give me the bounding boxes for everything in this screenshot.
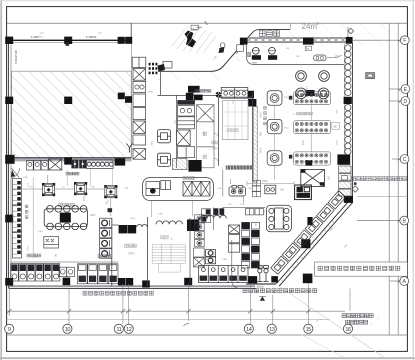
small dark mark bbox=[108, 208, 113, 212]
burner ring row bbox=[87, 160, 113, 169]
east exterior wall bbox=[351, 43, 353, 199]
east seating rail bbox=[343, 44, 345, 155]
riser 3 bbox=[230, 179, 232, 184]
vertical label char bbox=[264, 117, 267, 120]
stair flight rails bbox=[152, 244, 185, 263]
service counter bottom bbox=[198, 266, 248, 283]
small label box bbox=[332, 122, 340, 129]
laundry mid pair bbox=[59, 267, 74, 276]
small box bbox=[305, 46, 311, 50]
hood unit 3 bbox=[105, 186, 117, 198]
top exterior wall bbox=[7, 39, 131, 41]
laundry counter line bbox=[11, 261, 118, 263]
tick below column bbox=[66, 43, 70, 46]
grid line F bbox=[352, 39, 399, 41]
grid extension line bbox=[349, 289, 351, 312]
stair west wall bbox=[147, 217, 149, 286]
top wall inner line bbox=[7, 41, 131, 43]
grid bubble F bbox=[400, 36, 409, 45]
text sim room 2 bbox=[98, 255, 112, 258]
grid extension line bbox=[122, 284, 124, 324]
entrance mark bbox=[185, 31, 197, 48]
dark cook units bbox=[214, 208, 225, 215]
text electric shaft bbox=[203, 155, 207, 159]
text vent char bbox=[25, 205, 28, 208]
insulation wave right bbox=[201, 215, 227, 218]
rounded wall bbox=[232, 240, 240, 288]
svg-text:F: F bbox=[403, 38, 406, 44]
title band line bbox=[7, 22, 408, 24]
lounge table bbox=[266, 205, 291, 232]
partition line bbox=[32, 178, 34, 259]
hood unit 2 bbox=[75, 183, 87, 195]
structural columns bbox=[5, 37, 353, 288]
corridor dark block bbox=[188, 160, 201, 172]
svg-text:2350: 2350 bbox=[148, 92, 154, 94]
diamond marker bbox=[352, 186, 358, 192]
terrace faint edge bbox=[278, 286, 385, 359]
stick stool bbox=[257, 266, 262, 282]
square booth table 2 bbox=[267, 119, 282, 133]
svg-text:240: 240 bbox=[280, 189, 285, 192]
svg-text:F-J8643: F-J8643 bbox=[86, 35, 97, 39]
grid bubble 11 bbox=[114, 324, 123, 333]
grid bubble D bbox=[401, 97, 410, 106]
island unit right bbox=[183, 181, 210, 196]
glass wall bench chain bbox=[271, 191, 346, 275]
bottom margin line bbox=[7, 334, 408, 336]
elevator room walls bbox=[219, 92, 253, 181]
tea station bbox=[314, 55, 326, 61]
svg-text:240: 240 bbox=[335, 55, 340, 58]
svg-text:D: D bbox=[404, 99, 408, 105]
island unit left bbox=[146, 182, 160, 196]
entrance frame bbox=[191, 25, 199, 29]
range unit bbox=[229, 186, 245, 196]
grid bubble A bbox=[400, 277, 409, 286]
vertical label char bbox=[264, 122, 267, 125]
text steel platform note bbox=[83, 291, 153, 295]
door post bbox=[220, 43, 225, 48]
svg-text:2850: 2850 bbox=[212, 251, 214, 257]
curtain wall note box bbox=[315, 262, 408, 276]
vestibule fixture bbox=[163, 61, 172, 68]
svg-text:9: 9 bbox=[8, 327, 11, 333]
svg-text:11: 11 bbox=[116, 327, 121, 333]
elevator threshold band bbox=[226, 165, 253, 169]
svg-text:1750: 1750 bbox=[305, 86, 307, 92]
hood unit 1 bbox=[43, 184, 55, 196]
svg-text:1700: 1700 bbox=[284, 128, 290, 130]
svg-text:12: 12 bbox=[126, 327, 132, 333]
svg-text:B: B bbox=[402, 218, 406, 224]
svg-text:15m: 15m bbox=[128, 252, 135, 256]
svg-text:10: 10 bbox=[65, 327, 71, 333]
control box bbox=[44, 236, 59, 248]
cook line dark stack 2 bbox=[251, 222, 259, 268]
svg-text::: : bbox=[371, 321, 372, 326]
terrace faint edge 2 bbox=[300, 334, 345, 358]
svg-text:1750: 1750 bbox=[259, 112, 262, 118]
floor drain unit bbox=[157, 153, 170, 166]
svg-text:1240: 1240 bbox=[130, 218, 136, 220]
kitchen north wall bbox=[8, 157, 131, 159]
right margin line 1 bbox=[388, 23, 390, 335]
svg-text:98: 98 bbox=[333, 124, 337, 128]
diagonal glass curtain wall bbox=[276, 200, 352, 287]
svg-text:2M: 2M bbox=[105, 201, 108, 204]
gas line mid bbox=[54, 188, 74, 190]
ring units bbox=[206, 250, 216, 264]
banquet table 1 bbox=[294, 92, 331, 105]
dot grid bbox=[149, 63, 158, 74]
steam cabinet column bbox=[100, 218, 112, 258]
svg-text:E: E bbox=[404, 87, 408, 93]
text elevator bbox=[227, 129, 238, 132]
grid bubble 10 bbox=[63, 324, 72, 333]
svg-text:1700: 1700 bbox=[26, 246, 28, 252]
dining inner wall bbox=[246, 45, 344, 65]
svg-text:1850: 1850 bbox=[23, 177, 29, 179]
laundry bank left bbox=[11, 264, 60, 281]
svg-text:3: 3 bbox=[171, 237, 173, 241]
round table 3 bbox=[296, 88, 307, 99]
corridor wall stub bbox=[222, 170, 224, 197]
table link a bbox=[310, 105, 312, 120]
table mark 2 bbox=[306, 160, 313, 165]
east bench chairs lower bbox=[345, 105, 351, 155]
serving counter base bbox=[247, 38, 352, 43]
grid bubble E bbox=[401, 85, 410, 94]
east bench chairs bbox=[345, 45, 351, 96]
svg-text:2450: 2450 bbox=[254, 222, 256, 228]
dimension line 2 bbox=[7, 319, 330, 321]
table link line bbox=[274, 134, 276, 151]
svg-text:2540: 2540 bbox=[296, 241, 302, 244]
text area note 2 bbox=[346, 320, 368, 324]
grid extension line bbox=[188, 284, 190, 321]
wash station 1 bbox=[252, 47, 261, 59]
back kitchen walls bbox=[213, 207, 265, 288]
svg-text:1485: 1485 bbox=[204, 259, 210, 261]
office west wall bbox=[111, 218, 113, 286]
svg-text:3M-JK584(: 3M-JK584( bbox=[14, 50, 18, 64]
svg-text:8888: 8888 bbox=[252, 62, 258, 64]
square booth table 1 bbox=[267, 91, 282, 105]
level marker bbox=[260, 296, 265, 300]
east service boxes bbox=[339, 166, 352, 196]
table link b bbox=[310, 134, 312, 152]
round table 1 bbox=[296, 71, 307, 82]
svg-text:24m: 24m bbox=[302, 22, 318, 31]
shaft side fixtures bbox=[201, 209, 210, 223]
riser line 1 bbox=[47, 175, 49, 184]
stair east wall bbox=[189, 218, 191, 286]
vertical label char bbox=[264, 112, 267, 115]
small fixture bbox=[265, 185, 276, 194]
text counter label bbox=[195, 89, 211, 92]
grid extension line bbox=[8, 285, 10, 316]
counter return bbox=[236, 44, 243, 54]
dining wall stub bbox=[289, 23, 291, 29]
round table 4 bbox=[318, 88, 329, 99]
leader bbox=[327, 57, 337, 59]
gas line left bbox=[12, 188, 43, 190]
equipment contact blocks bbox=[17, 181, 21, 254]
svg-text:1200: 1200 bbox=[38, 231, 44, 233]
svg-text:A: A bbox=[402, 279, 406, 285]
vestibule wall bbox=[160, 70, 162, 95]
banquet table 2 bbox=[294, 121, 331, 134]
grid line D bbox=[389, 100, 400, 102]
shaft room column bbox=[197, 105, 214, 168]
grid extension line bbox=[68, 289, 70, 325]
counter block bbox=[306, 90, 315, 96]
hatched void area bbox=[12, 71, 132, 158]
dumbwaiter bbox=[49, 159, 62, 170]
stair landing bbox=[158, 263, 180, 272]
svg-text:14: 14 bbox=[246, 327, 252, 333]
svg-text:F-J807*—: F-J807*— bbox=[31, 35, 44, 39]
glass wall ticks bbox=[280, 221, 334, 282]
text stair3 bbox=[161, 236, 169, 239]
dining zone floor hatch bbox=[244, 23, 389, 46]
laundry bank right bbox=[77, 264, 118, 284]
grid extension line bbox=[249, 284, 251, 325]
sink row bbox=[26, 161, 48, 170]
right margin line 2 bbox=[397, 23, 399, 335]
svg-text:1750: 1750 bbox=[335, 140, 337, 146]
svg-text::: : bbox=[378, 315, 379, 320]
grid line A bbox=[390, 280, 400, 282]
table edge tick 2 bbox=[289, 155, 292, 159]
flower mark bbox=[216, 92, 222, 98]
left exterior wall outer bbox=[7, 40, 9, 288]
prep table corners bbox=[301, 169, 325, 185]
bottom exterior wall bbox=[8, 287, 256, 289]
corridor west line bbox=[130, 40, 132, 158]
elevator shaft bbox=[222, 101, 248, 140]
scan edge left bbox=[0, 0, 2, 360]
entrance hatch bbox=[172, 26, 216, 53]
prep table X bbox=[301, 169, 325, 186]
svg-text:950: 950 bbox=[259, 132, 262, 137]
grid line C bbox=[392, 158, 400, 160]
island unit mid bbox=[161, 181, 171, 190]
staff table center bbox=[60, 213, 71, 223]
grid extension line bbox=[127, 284, 129, 324]
grid extension line bbox=[307, 283, 309, 324]
dimension line 1 bbox=[7, 310, 345, 312]
grid bubble C bbox=[400, 155, 409, 164]
text vent char bbox=[25, 216, 28, 219]
dim tick bbox=[205, 21, 207, 25]
scan edge bottom bbox=[0, 357, 415, 359]
left exterior wall inner bbox=[10, 45, 12, 286]
svg-text:2340: 2340 bbox=[262, 180, 268, 183]
cook line white boxes bbox=[229, 225, 240, 252]
stair treads bbox=[152, 244, 185, 263]
svg-text:15: 15 bbox=[306, 327, 312, 333]
svg-text:20m: 20m bbox=[212, 147, 219, 151]
tap box bbox=[248, 52, 251, 56]
text vent char bbox=[25, 210, 28, 213]
crosshatch box bbox=[173, 159, 187, 170]
text office bbox=[125, 244, 137, 247]
grid bubble 9 bbox=[5, 324, 14, 333]
svg-text:240: 240 bbox=[327, 176, 330, 181]
banquet table 3 bbox=[294, 152, 331, 165]
scan edge right bbox=[412, 0, 414, 360]
arc tick bbox=[184, 324, 190, 326]
text 就餐区 bbox=[260, 31, 280, 37]
insulation wave stair top bbox=[156, 221, 182, 224]
svg-text:2400: 2400 bbox=[90, 214, 96, 217]
gas line right bbox=[87, 188, 104, 190]
stick stool bbox=[263, 266, 268, 282]
bottom wall poche bbox=[8, 285, 255, 287]
staff table bbox=[44, 206, 87, 230]
insulation wave small bbox=[137, 224, 147, 227]
text sim room 1 bbox=[27, 254, 41, 257]
island connector 2 bbox=[192, 200, 194, 216]
text mid kitchen bbox=[66, 172, 79, 175]
svg-text:1700: 1700 bbox=[284, 97, 290, 99]
refrigerator bank bbox=[132, 57, 146, 159]
table link line bbox=[274, 105, 276, 119]
grid extension line bbox=[272, 295, 274, 324]
text fire rescue top bbox=[352, 177, 407, 181]
svg-text:1485: 1485 bbox=[222, 259, 228, 261]
dim line bbox=[247, 182, 294, 184]
grid bubble 16 bbox=[343, 324, 352, 333]
wall fixture bbox=[366, 73, 375, 79]
table link line bbox=[274, 165, 276, 180]
bench line bbox=[246, 283, 276, 285]
grid bubble 13 bbox=[267, 324, 276, 333]
strip lower boxes bbox=[194, 248, 205, 267]
text bbq room bbox=[59, 203, 75, 206]
square booth table 3 bbox=[267, 151, 282, 165]
hood drop line bbox=[110, 198, 112, 216]
fridge circles bbox=[135, 85, 139, 89]
cook line dark stack 1 bbox=[242, 222, 250, 268]
west equipment bank bbox=[12, 179, 21, 259]
svg-text:16: 16 bbox=[345, 327, 351, 333]
svg-text:61616: 61616 bbox=[257, 286, 264, 289]
island connector bbox=[150, 200, 152, 217]
wash station 2 bbox=[268, 47, 277, 59]
svg-text:2450: 2450 bbox=[259, 148, 262, 154]
floor drain unit bbox=[157, 130, 170, 143]
table edge tick 1 bbox=[289, 96, 292, 100]
svg-text:1750: 1750 bbox=[240, 204, 246, 206]
bank inner lines bbox=[12, 185, 16, 255]
diamond marker top bbox=[348, 28, 354, 34]
svg-text:1485: 1485 bbox=[158, 214, 164, 216]
counter bottoms bbox=[200, 276, 247, 281]
dark service unit bbox=[295, 185, 312, 200]
svg-text:5m: 5m bbox=[306, 48, 309, 51]
kitchen row boxes bbox=[246, 209, 264, 215]
grid line B bbox=[357, 220, 399, 222]
prep equipment strip bbox=[177, 95, 195, 168]
curved entry wall bbox=[158, 30, 290, 72]
east small stack bbox=[252, 180, 260, 196]
text area note 1 bbox=[342, 314, 373, 318]
under-column box bbox=[237, 45, 244, 52]
burner unit stack bbox=[195, 215, 205, 247]
svg-text:1500: 1500 bbox=[301, 140, 303, 146]
scan edge top bbox=[0, 0, 415, 2]
entry lobe hatch bbox=[158, 36, 258, 81]
riser line 2 bbox=[83, 196, 85, 201]
text water shaft bbox=[203, 132, 207, 136]
dark prep units bbox=[71, 160, 86, 169]
serving counter cells bbox=[250, 39, 349, 42]
terrace line bbox=[357, 196, 407, 198]
text curtain wall note bbox=[318, 266, 400, 270]
grid bubble 14 bbox=[244, 324, 253, 333]
Y mark bbox=[127, 144, 133, 153]
grid bubble 15 bbox=[304, 324, 313, 333]
riser 4 bbox=[243, 196, 245, 203]
text storage bbox=[212, 141, 219, 144]
door swing bbox=[11, 168, 19, 177]
svg-text:950: 950 bbox=[202, 112, 205, 117]
svg-text:2850: 2850 bbox=[150, 141, 152, 147]
round table 2 bbox=[319, 71, 330, 82]
grid bubble 12 bbox=[124, 324, 133, 333]
svg-text:13: 13 bbox=[269, 327, 275, 333]
insulated wall bbox=[253, 107, 257, 183]
svg-text:-3: -3 bbox=[292, 112, 295, 116]
arc tick 2 bbox=[316, 320, 322, 322]
kitchen north wall poche bbox=[8, 158, 131, 161]
buffet unit bbox=[221, 87, 248, 98]
shaft door arcs bbox=[214, 133, 219, 164]
text machine room bbox=[297, 112, 313, 115]
svg-text:C: C bbox=[403, 157, 407, 163]
kitchen island bbox=[143, 178, 214, 201]
text island label bbox=[183, 177, 194, 179]
text fire rescue bottom bbox=[243, 289, 317, 293]
grid line E bbox=[389, 88, 400, 90]
vertical label char bbox=[264, 107, 267, 110]
entry jamb wall bbox=[130, 23, 132, 42]
drop lines bbox=[67, 168, 112, 186]
grid bubble B bbox=[400, 216, 409, 225]
vestibule south wall bbox=[158, 94, 217, 96]
